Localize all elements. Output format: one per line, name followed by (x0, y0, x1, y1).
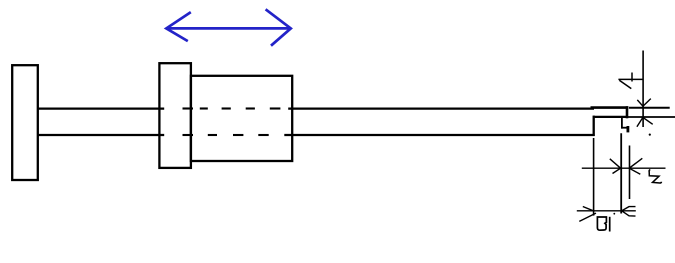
dimension 10: left arrow (pointing right) (579, 207, 596, 222)
text 2 (rotated) (649, 170, 661, 183)
dimension 4: vertical dimension line (642, 51, 644, 128)
blue slide arrow right head (266, 9, 291, 45)
blue slide arrow left head (166, 12, 191, 41)
dimension 2: left arrow (pointing right) (610, 159, 621, 174)
text 10: digit 0 (597, 217, 606, 230)
dimension 4: lower arrow (637, 117, 653, 126)
dimension 4: bottom extension line (628, 116, 675, 118)
tip bottom edge (593, 116, 627, 118)
extension line at x=629.5 (629, 146, 631, 200)
dimension 4: upper arrow (637, 99, 651, 107)
long shaft top line (288, 107, 594, 109)
hidden shaft bottom dashed line (183, 134, 269, 136)
text 4 (rotated) (618, 73, 643, 89)
tip left step vertical (593, 116, 595, 136)
tip end face (626, 106, 629, 118)
dimension 10: right arrow (pointing left) (622, 207, 636, 217)
left flange (12, 65, 38, 180)
tip top edge (591, 106, 629, 109)
shaft left segment top line (38, 107, 164, 109)
notch bottom edge (621, 127, 628, 129)
stray dot (649, 134, 651, 136)
stray mark near 10 arrow (613, 213, 615, 215)
shaft left segment bottom line (38, 134, 164, 136)
sliding collar (159, 63, 191, 168)
notch right edge (627, 126, 630, 132)
blue slide arrow shaft (166, 27, 290, 30)
dimension 2: right arrow (pointing left) (629, 158, 642, 174)
hidden shaft top dashed line (183, 107, 281, 109)
extension line at x=621 (620, 133, 622, 213)
notch left edge (621, 118, 623, 129)
sleeve hub (191, 76, 292, 161)
dimension 2: dimension line (582, 167, 666, 169)
text 10: digit 1 (609, 217, 611, 232)
dimension 10: dimension line (577, 210, 636, 212)
long shaft bottom line (284, 134, 594, 136)
dimension 4: top extension line (629, 107, 670, 109)
extension line at x=593.6 (593, 138, 595, 216)
